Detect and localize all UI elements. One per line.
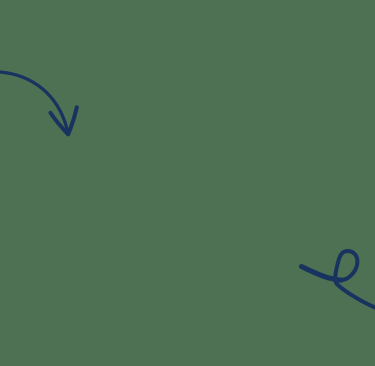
- loop squiggle (bottom-right), hand-drawn annotation: [302, 251, 375, 308]
- squiggle wire: [302, 251, 375, 308]
- arrowhead left wing: [51, 113, 69, 134]
- arrowhead right wing: [68, 107, 77, 134]
- curved arrow (top-left), hand-drawn annotation: [0, 72, 77, 134]
- squiggle baseline overlay (thicker hand-drawn part): [302, 267, 342, 281]
- arrow shaft arc: [0, 72, 68, 134]
